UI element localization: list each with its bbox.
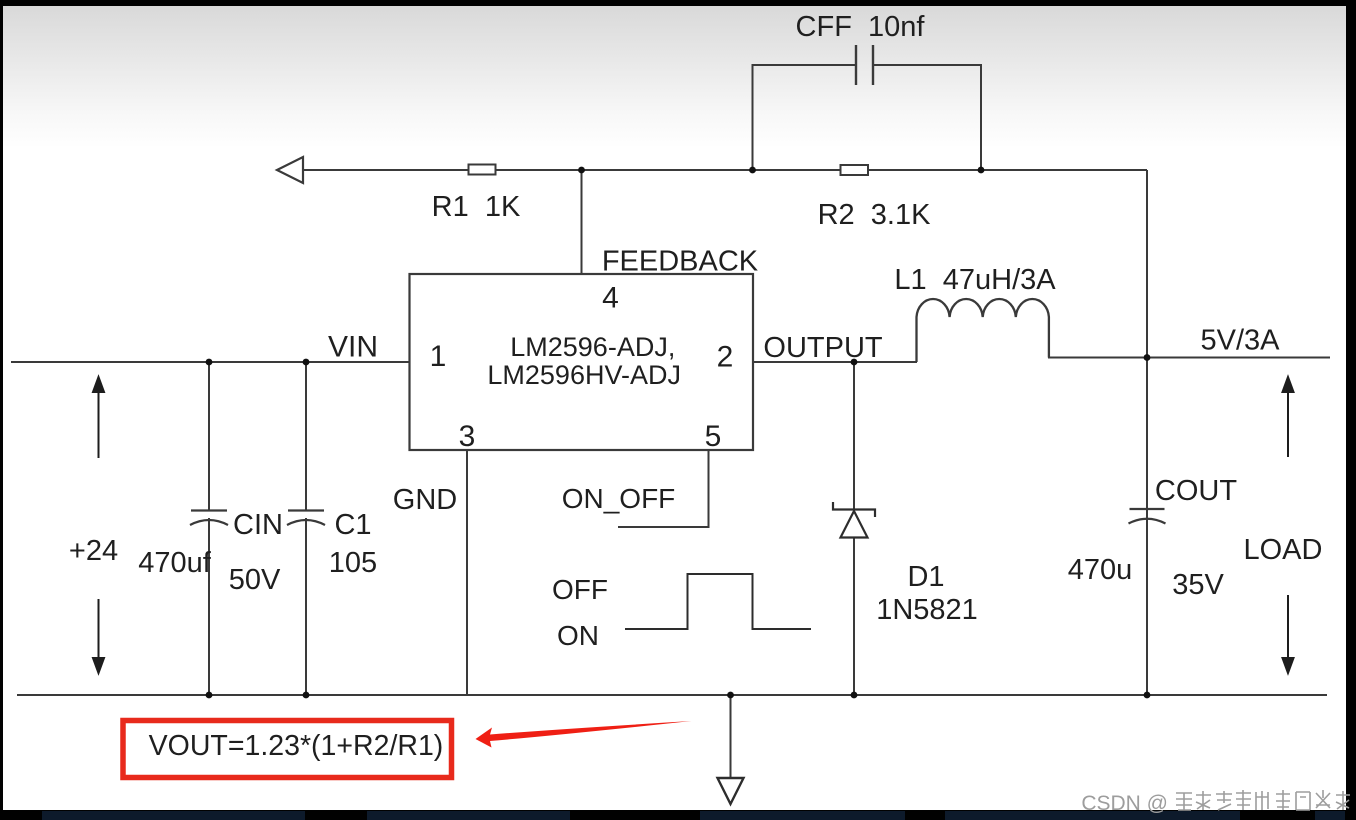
right black frame bar: [1346, 0, 1356, 820]
svg-text:ON: ON: [557, 620, 599, 651]
top gradient band: [3, 6, 1346, 148]
svg-text:FEEDBACK: FEEDBACK: [602, 246, 759, 278]
svg-text:VIN: VIN: [328, 331, 378, 364]
bottom bar navy segment 2: [367, 811, 570, 820]
inductor L1: [917, 299, 1049, 362]
LOAD arrow down: [1283, 595, 1294, 673]
bottom black frame bar: [0, 810, 1356, 820]
capacitor CFF plates: [856, 45, 873, 85]
svg-text:5: 5: [705, 420, 722, 453]
wire: CFF loop right riser: [873, 65, 981, 170]
wire: right rail from top to bottom: [1146, 170, 1148, 695]
capacitor CIN symbol: [190, 511, 228, 526]
+24 input arrow up: [93, 377, 104, 458]
svg-text:C1: C1: [334, 509, 371, 541]
svg-text:5V/3A: 5V/3A: [1201, 325, 1281, 357]
svg-text:L1 47uH/3A: L1 47uH/3A: [894, 264, 1056, 296]
wire: CIN branch lower: [208, 518, 210, 695]
left black frame bar: [0, 0, 3, 820]
svg-text:35V: 35V: [1172, 569, 1224, 601]
svg-text:470u: 470u: [1068, 554, 1133, 586]
diode D1 schottky: [833, 502, 875, 538]
capacitor C1 symbol: [287, 511, 325, 526]
node dot: bottom D1: [851, 692, 858, 699]
svg-text:VOUT=1.23*(1+R2/R1): VOUT=1.23*(1+R2/R1): [149, 730, 444, 762]
ground symbol: [718, 778, 744, 804]
feedback arrowhead (open, left): [277, 157, 303, 183]
top black frame bar: [0, 0, 1356, 6]
ON/OFF waveform: [625, 574, 811, 629]
svg-text:ON_OFF: ON_OFF: [562, 483, 676, 514]
wire: feedback top rail: [302, 169, 1147, 171]
node dot: bottom CIN: [206, 692, 213, 699]
red highlight box: [123, 721, 452, 778]
wire: CFF loop left riser: [753, 65, 857, 170]
LOAD arrow up: [1283, 377, 1294, 457]
capacitor COUT symbol: [1129, 509, 1166, 524]
wire: ON_OFF pin 5 drop: [618, 450, 709, 527]
svg-text:470uf: 470uf: [138, 547, 212, 579]
wire: D1 branch lower: [853, 538, 855, 696]
wire: OUTPUT pin to inductor: [753, 361, 917, 363]
node dot: feedback/R1 junction: [578, 167, 585, 174]
svg-text:1N5821: 1N5821: [876, 594, 978, 626]
wire: COUT branch upper: [1146, 358, 1148, 510]
resistor R2 body: [841, 165, 869, 175]
svg-text:4: 4: [602, 282, 619, 315]
wire: feedback node drop to IC: [581, 170, 583, 274]
IC U1 LM2596 box: [410, 274, 754, 450]
svg-text:LM2596HV-ADJ: LM2596HV-ADJ: [487, 360, 681, 390]
watermark glyph blocks: [1176, 790, 1350, 810]
node dot: output rail / right rail: [1144, 354, 1151, 361]
bottom bar navy segment 3: [700, 811, 905, 820]
wire: VIN rail: [11, 361, 410, 363]
svg-text:2: 2: [717, 341, 734, 374]
node dot: bottom ground stub: [727, 692, 734, 699]
svg-text:GND: GND: [393, 484, 457, 516]
svg-text:CFF 10nf: CFF 10nf: [796, 11, 926, 43]
svg-text:CIN: CIN: [233, 509, 283, 541]
node dot: CFF left: [749, 167, 756, 174]
svg-text:R1 1K: R1 1K: [432, 191, 521, 223]
svg-text:CSDN @: CSDN @: [1081, 792, 1168, 815]
wire: output rail to load: [1048, 357, 1330, 359]
wire: CIN branch upper: [208, 362, 210, 510]
wire: C1 branch lower: [305, 518, 307, 695]
svg-text:D1: D1: [907, 561, 944, 593]
svg-text:OFF: OFF: [552, 574, 608, 605]
node dot: bottom COUT: [1144, 692, 1151, 699]
node dot: VIN/CIN: [206, 359, 213, 366]
red annotation arrow: [476, 721, 692, 748]
svg-text:LM2596-ADJ,: LM2596-ADJ,: [510, 332, 675, 362]
svg-text:105: 105: [329, 547, 377, 579]
svg-text:3: 3: [459, 420, 476, 453]
svg-text:OUTPUT: OUTPUT: [763, 332, 883, 364]
node dot: bottom C1: [303, 692, 310, 699]
bottom bar navy segment 5: [1315, 811, 1345, 820]
svg-text:1: 1: [430, 340, 447, 373]
svg-text:LOAD: LOAD: [1244, 534, 1323, 566]
wire: GND pin 3 drop: [466, 450, 468, 695]
bottom bar navy segment 4: [945, 811, 1240, 820]
+24 input arrow down: [93, 599, 104, 673]
svg-text:COUT: COUT: [1155, 475, 1237, 507]
svg-text:R2 3.1K: R2 3.1K: [818, 199, 931, 231]
wire: D1 branch upper: [853, 362, 855, 510]
svg-text:50V: 50V: [229, 564, 281, 596]
resistor R1 body: [469, 165, 496, 175]
wire: ground stub: [730, 695, 732, 778]
node dot: OUTPUT/D1: [851, 359, 858, 366]
node dot: VIN/C1: [303, 359, 310, 366]
bottom bar navy segment 1: [42, 811, 305, 820]
wire: C1 branch upper: [305, 362, 307, 510]
node dot: CFF right: [978, 167, 985, 174]
wire: ground bottom rail: [17, 694, 1327, 696]
svg-text:+24: +24: [69, 535, 118, 567]
